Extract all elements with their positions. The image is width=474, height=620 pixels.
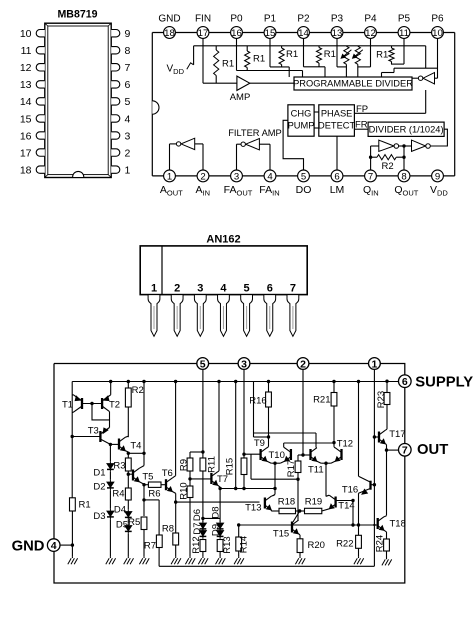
pin 10 (left) of MB8719 package: [20, 28, 45, 40]
wire pin1 to amp out: [170, 144, 177, 171]
resistor R19: [305, 497, 323, 514]
wire D6-D8 link: [203, 517, 220, 519]
svg-text:T14: T14: [338, 501, 354, 512]
wire T13 emitter: [271, 510, 279, 511]
ground (R12): [198, 552, 208, 565]
pin 3 (right) of MB8719 package: [111, 130, 130, 142]
wire base link to T2 collector tie: [92, 404, 110, 428]
transistor T12: [335, 439, 353, 462]
variable resistor (e1): [341, 46, 351, 77]
svg-text:PUMP: PUMP: [288, 121, 315, 131]
svg-text:T11: T11: [308, 464, 324, 475]
svg-text:DO: DO: [296, 184, 312, 196]
svg-text:T12: T12: [337, 439, 353, 450]
IC package MB8719 body: [45, 23, 111, 177]
svg-text:T2: T2: [109, 400, 120, 411]
svg-text:T4: T4: [130, 440, 141, 451]
svg-text:P0: P0: [230, 13, 243, 24]
resistor R23: [376, 380, 390, 409]
ground (R20): [295, 553, 305, 565]
transistor T16: [342, 476, 371, 495]
wire T11 base: [303, 454, 311, 456]
wire base drop x251: [250, 454, 252, 479]
svg-text:18: 18: [20, 164, 32, 176]
svg-text:9: 9: [435, 171, 440, 182]
wire bus drop right: [425, 46, 427, 68]
svg-text:MB8719: MB8719: [57, 9, 97, 21]
svg-text:R16: R16: [249, 395, 266, 406]
svg-text:R9: R9: [179, 459, 190, 471]
diode D3: [93, 490, 113, 522]
diode D9: [210, 524, 223, 539]
svg-text:LM: LM: [330, 184, 345, 196]
svg-text:R4: R4: [112, 489, 124, 500]
wire pin10 down: [435, 38, 438, 78]
pin 4 circle (bottom): [264, 170, 276, 182]
diode D6: [192, 509, 206, 531]
resistor R2: [371, 155, 404, 172]
svg-text:R1: R1: [222, 59, 234, 70]
audio amp inverter: [176, 138, 194, 149]
svg-text:GND: GND: [158, 13, 180, 24]
pin 7 circle (bottom): [365, 170, 377, 182]
block diagram outer box: [152, 33, 454, 176]
svg-text:1: 1: [167, 171, 172, 182]
inverter (osc a): [379, 140, 399, 151]
svg-text:1: 1: [125, 164, 131, 176]
wire T15 emitter: [298, 534, 300, 539]
pin 1 circle: [369, 358, 381, 371]
resistor R24: [375, 535, 390, 552]
svg-text:1: 1: [371, 358, 377, 370]
wire inverter out: [412, 77, 418, 79]
svg-text:2: 2: [174, 282, 180, 294]
pin 6 of AN162 package: [264, 282, 276, 336]
svg-text:FP: FP: [356, 104, 368, 115]
wire R1 to pin4: [60, 511, 74, 557]
wire R18-R19 node: [293, 509, 305, 522]
transistor T3: [88, 426, 111, 445]
svg-text:8: 8: [125, 45, 131, 57]
wire left rail: [71, 382, 73, 498]
wire T11-T12 emitters: [317, 461, 336, 465]
svg-text:D1: D1: [93, 468, 105, 479]
ground (R24): [382, 551, 392, 565]
svg-text:10: 10: [432, 28, 443, 39]
svg-text:8: 8: [401, 171, 406, 182]
wire pin17 down: [202, 38, 204, 83]
svg-text:17: 17: [198, 28, 209, 39]
wire FR: [354, 128, 368, 130]
wire inv-inv: [399, 145, 412, 147]
svg-text:FIN: FIN: [195, 13, 211, 24]
transistor T10: [269, 448, 291, 462]
svg-text:P3: P3: [331, 13, 344, 24]
diode D2: [93, 472, 113, 493]
pin 1 of AN162 package: [148, 282, 160, 336]
wire chg-phase links: [314, 112, 319, 128]
svg-text:FILTER AMP: FILTER AMP: [228, 128, 282, 138]
pin 4 (right) of MB8719 package: [111, 113, 130, 125]
svg-text:R18: R18: [278, 497, 295, 508]
svg-text:13: 13: [332, 28, 343, 39]
wire emitter h-link: [142, 498, 159, 501]
pin 3 of AN162 package: [194, 282, 206, 336]
diode D4: [114, 500, 132, 520]
svg-text:17: 17: [20, 147, 32, 159]
pin 9 (right) of MB8719 package: [111, 28, 130, 40]
wire pin5 to R9: [190, 452, 203, 458]
label P6 (pin 10): [431, 13, 444, 24]
wire h479 link: [251, 478, 300, 481]
svg-text:D2: D2: [93, 482, 105, 493]
svg-text:R1: R1: [376, 50, 388, 61]
IC package MB8719 title: [57, 9, 97, 21]
svg-text:R1: R1: [253, 54, 265, 65]
resistor R21: [313, 380, 337, 406]
transistor T13: [245, 496, 271, 513]
label P0 (pin 16): [230, 13, 243, 24]
diode D5: [116, 520, 132, 534]
svg-text:7: 7: [402, 445, 408, 457]
svg-text:R22: R22: [336, 539, 353, 550]
ground (R14): [234, 551, 244, 564]
resistor R13: [217, 536, 233, 553]
svg-text:OUT: OUT: [417, 442, 448, 458]
wire R15 down: [243, 475, 245, 489]
svg-text:16: 16: [20, 130, 32, 142]
label A_OUT (pin 1): [160, 184, 183, 198]
ground (D3): [106, 519, 116, 564]
label P3 (pin 13): [331, 13, 344, 24]
wire T17 emitter: [385, 444, 399, 452]
junction (pin1-bus corner): [373, 524, 375, 526]
svg-text:T1: T1: [62, 400, 73, 411]
svg-text:D5: D5: [116, 520, 128, 531]
IC package AN162 body: [140, 246, 307, 295]
resistor R7: [144, 500, 162, 552]
svg-text:D7: D7: [192, 522, 203, 534]
wire T9T10 tail: [273, 463, 277, 496]
svg-text:16: 16: [231, 28, 242, 39]
pin 5 circle: [197, 358, 209, 371]
IC package bottom notch: [73, 171, 84, 177]
pin 16 circle (top, P0): [231, 27, 243, 39]
svg-text:R6: R6: [148, 488, 160, 499]
wire LM to PHASE DETECT: [336, 136, 338, 170]
svg-text:R1: R1: [79, 500, 91, 511]
label FP: [356, 104, 368, 115]
resistor R15: [224, 458, 247, 475]
wire VDD riser: [193, 46, 195, 65]
op-amp AMP: [230, 76, 251, 103]
wire staircase into divider: [382, 68, 395, 77]
svg-text:D3: D3: [93, 511, 105, 522]
wire T6 collector riser: [172, 380, 177, 478]
svg-text:AMP: AMP: [230, 92, 251, 103]
resistor R1 (d): [316, 46, 336, 67]
label A_IN (pin 2): [196, 184, 211, 198]
transistor T6: [161, 468, 173, 492]
resistor R1 (f): [376, 46, 394, 64]
diode D8: [210, 506, 223, 531]
wire T9 base: [244, 453, 261, 455]
pin 12 (left) of MB8719 package: [20, 62, 45, 74]
wire T1 collector to rail: [71, 412, 74, 438]
wire pin3 down: [242, 370, 245, 458]
wire T7 base: [190, 478, 211, 480]
resistor R20: [297, 539, 325, 553]
resistor R14: [236, 525, 250, 553]
svg-text:7: 7: [290, 282, 296, 294]
svg-text:T10: T10: [269, 450, 285, 461]
svg-text:3: 3: [241, 358, 247, 370]
label P5 (pin 11): [398, 13, 411, 24]
pin 18 (left) of MB8719 package: [20, 164, 45, 176]
transistor T14: [329, 495, 354, 511]
wire R9-R10 node: [188, 471, 191, 486]
wire T11 collector riser: [254, 433, 317, 448]
resistor R18: [278, 497, 296, 514]
wire T16 emitter riser: [357, 493, 360, 535]
diode D7: [192, 522, 206, 538]
pin 13 circle (top, P3): [331, 27, 343, 39]
wire R3-R4 node: [127, 471, 133, 488]
pin 13 (left) of MB8719 package: [20, 79, 45, 91]
pin 6 circle (SUPPLY): [399, 375, 474, 391]
svg-text:R12: R12: [191, 536, 202, 553]
wire h-line y68: [394, 67, 438, 69]
svg-text:PHASE: PHASE: [321, 109, 353, 119]
wire T7 emitter down: [218, 485, 222, 522]
VDD supply tick: [187, 63, 194, 69]
pin 15 circle (top, P1): [264, 27, 276, 39]
wire R2 to T4 collector: [125, 407, 128, 437]
svg-text:R24: R24: [375, 535, 386, 552]
pin 18 circle (top, GND): [164, 27, 176, 39]
diode D1: [93, 461, 113, 478]
svg-text:11: 11: [21, 45, 32, 57]
wire VDD bus: [194, 45, 426, 47]
svg-text:R2: R2: [132, 385, 144, 396]
label P2 (pin 14): [297, 13, 310, 24]
pin 17 (left) of MB8719 package: [20, 147, 45, 159]
wire T5 collector riser: [139, 380, 145, 468]
svg-text:CHG: CHG: [291, 109, 312, 119]
svg-text:D8: D8: [210, 506, 221, 518]
svg-text:3: 3: [234, 171, 239, 182]
wire CHG PUMP to DO: [283, 120, 303, 170]
wire T10 collector riser: [284, 443, 334, 448]
svg-text:T13: T13: [245, 503, 261, 514]
pin 15 (left) of MB8719 package: [20, 113, 45, 125]
block diagram left-edge notch: [152, 101, 159, 114]
wire T9 collector riser: [267, 407, 270, 448]
inverter (osc b): [412, 140, 431, 151]
label V_DD (pin 9): [430, 184, 448, 198]
pin 5 of AN162 package: [241, 282, 253, 336]
svg-text:15: 15: [265, 28, 276, 39]
pin 6 (right) of MB8719 package: [111, 79, 130, 91]
pin 2 of AN162 package: [171, 282, 183, 336]
wire FP: [354, 90, 425, 113]
wire AMP out: [250, 82, 294, 84]
svg-text:9: 9: [125, 28, 131, 40]
svg-text:R15: R15: [224, 458, 235, 475]
wire T17 base: [374, 436, 379, 438]
wire T14 emitter: [322, 509, 329, 511]
resistor R8: [162, 524, 179, 546]
svg-text:R17: R17: [286, 460, 297, 477]
pin 1 circle (bottom): [164, 170, 176, 182]
wire QOUT node: [402, 144, 405, 170]
svg-text:R2: R2: [382, 161, 394, 172]
svg-text:P2: P2: [297, 13, 310, 24]
svg-text:T18: T18: [390, 519, 406, 530]
resistor R1 (a): [214, 46, 235, 83]
transistor T9: [254, 438, 267, 461]
svg-text:3: 3: [125, 130, 131, 142]
pin 7 circle (OUT): [399, 442, 449, 458]
wire T14 collector: [326, 495, 329, 496]
svg-text:DETECT: DETECT: [318, 121, 356, 131]
wire T5 emitter node: [139, 482, 148, 516]
svg-text:2: 2: [200, 171, 205, 182]
transistor T4: [119, 437, 141, 451]
svg-text:FR: FR: [355, 119, 368, 130]
box DIVIDER (1/1024): [368, 122, 444, 136]
svg-text:14: 14: [298, 28, 309, 39]
transistor T17: [379, 429, 406, 444]
wire pin14 down: [304, 38, 326, 77]
svg-text:PROGRAMMABLE DIVIDER: PROGRAMMABLE DIVIDER: [293, 79, 413, 89]
wire filter amp out to pin3: [237, 144, 242, 170]
svg-text:5: 5: [244, 282, 250, 294]
wire T3c to T4 base: [110, 443, 119, 445]
wire pin1 down: [373, 370, 376, 567]
label FIN (pin 17): [195, 13, 211, 24]
resistor R4: [112, 488, 131, 500]
box CHG PUMP: [288, 105, 315, 136]
wire T1 emitter riser: [71, 394, 74, 397]
wire T15 collector: [297, 519, 299, 521]
wire pin15 down: [270, 38, 289, 77]
label Q_IN (pin 7): [363, 184, 379, 198]
svg-text:3: 3: [197, 282, 203, 294]
transistor T1: [62, 395, 82, 413]
pin 11 (left) of MB8719 package: [21, 45, 45, 57]
svg-text:13: 13: [20, 79, 32, 91]
pin 16 (left) of MB8719 package: [20, 130, 45, 142]
svg-text:R3: R3: [113, 461, 125, 472]
pin 2 (right) of MB8719 package: [111, 147, 130, 159]
svg-text:6: 6: [402, 376, 408, 388]
svg-text:7: 7: [125, 62, 131, 74]
wire rail drop x235: [234, 380, 237, 489]
wire T3 base: [72, 436, 100, 438]
pin 4 circle (GND): [12, 539, 60, 555]
svg-text:T6: T6: [162, 468, 173, 479]
svg-text:5: 5: [301, 171, 306, 182]
wire T6 emitter riser: [172, 492, 177, 534]
pin 10 circle (top, P6): [432, 27, 444, 39]
svg-text:T15: T15: [273, 529, 289, 540]
svg-text:R20: R20: [308, 540, 325, 551]
svg-text:6: 6: [334, 171, 339, 182]
pin 12 circle (top, P4): [365, 27, 377, 39]
wire T11T12 tail: [325, 463, 327, 496]
resistor R6: [148, 482, 161, 499]
ground bus line: [159, 565, 374, 567]
resistor R9: [179, 458, 193, 471]
wire QIN node: [369, 146, 379, 171]
svg-text:4: 4: [125, 113, 131, 125]
svg-text:T9: T9: [254, 438, 265, 449]
wire T14 base: [336, 499, 355, 525]
svg-text:R1: R1: [324, 49, 336, 60]
resistor R3: [113, 458, 131, 472]
pin 4 of AN162 package: [218, 282, 230, 336]
wire node line y488: [220, 487, 275, 490]
svg-text:D9: D9: [210, 524, 221, 536]
svg-text:R13: R13: [222, 536, 233, 553]
svg-text:12: 12: [20, 62, 32, 74]
resistor R1 (c): [279, 46, 298, 67]
pin 3 circle (bottom): [231, 170, 243, 182]
resistor R1 (b): [245, 46, 266, 71]
svg-text:P4: P4: [364, 13, 377, 24]
wire T18 collector: [384, 516, 386, 517]
svg-text:T5: T5: [142, 472, 153, 483]
resistor R10: [179, 482, 193, 499]
pin 2 circle (bottom): [197, 170, 209, 182]
svg-text:5: 5: [125, 96, 131, 108]
wire T3 collector node: [109, 443, 112, 462]
wire T16 base: [371, 484, 375, 486]
pin 6 circle (bottom): [331, 170, 343, 182]
wire OUT to T18 collector: [386, 450, 388, 515]
label VDD (supply): [167, 64, 185, 77]
pin 14 (left) of MB8719 package: [20, 96, 45, 108]
filter amp inverter: [241, 139, 259, 150]
wire T18 emitter: [384, 530, 386, 539]
pin 17 circle (top, FIN): [197, 27, 209, 39]
transistor T7: [211, 472, 228, 486]
pin 5 (right) of MB8719 package: [111, 96, 130, 108]
wire pin11 down: [391, 38, 404, 64]
svg-text:SUPPLY: SUPPLY: [415, 375, 473, 391]
label FR: [355, 119, 368, 130]
svg-text:P1: P1: [264, 13, 277, 24]
svg-text:R1: R1: [286, 49, 298, 60]
label FA_OUT (pin 3): [224, 184, 253, 198]
svg-text:P5: P5: [398, 13, 411, 24]
svg-text:DIVIDER (1/1024): DIVIDER (1/1024): [369, 125, 444, 135]
resistor R11: [200, 456, 218, 473]
svg-text:D4: D4: [114, 505, 126, 516]
ground (R8): [171, 545, 181, 564]
pin 9 circle (bottom): [432, 170, 444, 182]
pin 7 of AN162 package: [287, 282, 299, 336]
svg-text:AN162: AN162: [206, 234, 240, 246]
svg-text:R10: R10: [179, 482, 190, 499]
wire T9-T10 emitters: [267, 461, 285, 465]
pin 8 (right) of MB8719 package: [111, 45, 130, 57]
svg-text:15: 15: [20, 113, 32, 125]
svg-text:6: 6: [267, 282, 273, 294]
pin 7 (right) of MB8719 package: [111, 62, 130, 74]
wire T1-T2 base link: [82, 402, 102, 405]
